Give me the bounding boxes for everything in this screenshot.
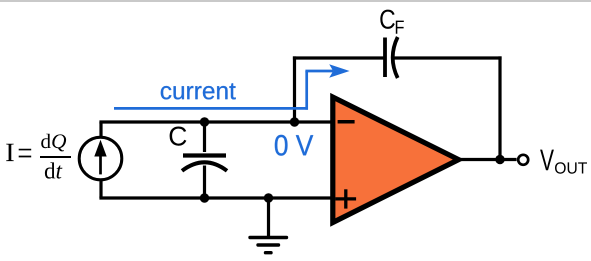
op-amp plus sign horizontal xyxy=(335,197,356,200)
wire: top horizontal to inverting input xyxy=(99,120,334,123)
wire: bottom horizontal to non-inverting input xyxy=(99,196,334,199)
op-amp minus sign xyxy=(338,120,355,124)
label VOUT V xyxy=(540,150,554,171)
node dot: inverting wire / C xyxy=(200,117,209,126)
wire: feedback right vertical xyxy=(498,56,501,159)
label dQ numerator xyxy=(41,134,66,152)
wire: feedback top horizontal right of CF xyxy=(394,56,502,59)
capacitor CF curved right plate xyxy=(393,37,398,78)
node dot: bottom wire / C xyxy=(200,193,209,202)
ground bar 2 xyxy=(258,243,279,246)
label 0 V xyxy=(275,135,313,156)
op-amp U1 triangle xyxy=(333,97,459,222)
capacitor C top stub xyxy=(203,122,206,152)
current source arrowhead xyxy=(94,140,106,157)
current source arrow shaft xyxy=(99,150,102,174)
top gray border line xyxy=(0,0,591,2)
wire: output horizontal xyxy=(460,158,517,161)
current source I1 circle xyxy=(79,137,122,180)
output terminal open circle xyxy=(518,155,528,165)
label CF C xyxy=(380,10,395,29)
blue current path horizontal xyxy=(114,107,308,110)
fraction bar xyxy=(40,156,71,158)
node dot: bottom wire / ground tap xyxy=(264,193,273,202)
ground bar 1 xyxy=(250,236,287,239)
node dot: inverting wire / feedback tap xyxy=(290,117,299,126)
node dot: output / feedback junction xyxy=(495,155,504,164)
label C xyxy=(170,127,187,146)
op-amp plus sign vertical xyxy=(344,189,347,208)
blue current path arrow shaft xyxy=(305,70,333,73)
blue current path vertical xyxy=(305,71,308,110)
capacitor C bottom stub xyxy=(203,166,206,199)
capacitor C top plate xyxy=(183,153,226,157)
capacitor C curved bottom plate xyxy=(182,162,227,171)
blue arrowhead xyxy=(329,64,349,77)
wire: left vertical branch xyxy=(99,122,102,198)
label VOUT OUT subscript xyxy=(555,162,587,174)
label = xyxy=(19,149,32,158)
label I xyxy=(6,144,14,161)
ground bar 3 xyxy=(266,251,272,254)
wire: feedback left vertical xyxy=(293,56,296,122)
ground stub xyxy=(267,198,270,236)
label dt denominator xyxy=(45,162,63,178)
label CF F subscript xyxy=(396,21,404,34)
capacitor CF left plate xyxy=(383,38,387,78)
label current xyxy=(161,83,236,99)
wire: feedback top horizontal left of CF xyxy=(293,56,384,59)
